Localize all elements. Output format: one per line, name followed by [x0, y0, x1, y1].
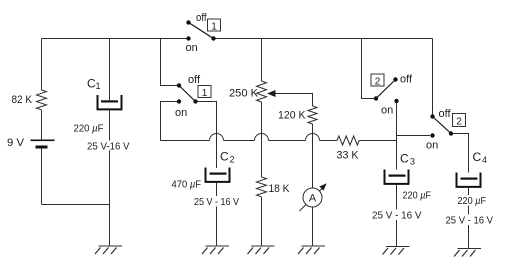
wire top bus right segment [214, 38, 433, 40]
wire 82K to battery [41, 110, 43, 140]
svg-text:C: C [400, 152, 409, 166]
wire C3 node to C3 [396, 141, 398, 170]
capacitor C2 bottom U bracket [205, 168, 231, 183]
wire pot top from bus [261, 39, 263, 82]
wire bottom left horizontal [42, 204, 110, 206]
capacitor C4 top plate [461, 178, 478, 180]
resistor 33K zigzag [337, 136, 359, 145]
capacitor C1 top plate [101, 100, 118, 102]
svg-text:off: off [196, 12, 207, 24]
switch S1a lever [189, 23, 214, 39]
svg-text:on: on [186, 42, 198, 54]
svg-text:9 V: 9 V [7, 137, 25, 149]
svg-text:220 µF: 220 µF [458, 196, 487, 207]
wire battery minus down [41, 148, 43, 205]
wire pot bottom to 18K [261, 102, 263, 177]
ground G4 under ammeter [298, 246, 325, 254]
svg-text:220 µF: 220 µF [74, 124, 104, 135]
svg-text:1: 1 [211, 22, 217, 33]
wire C1 bottom to ground [109, 111, 111, 247]
svg-text:C: C [220, 150, 229, 164]
capacitor C4 bottom U bracket [456, 173, 482, 188]
wire 120K bottom to ammeter [312, 124, 314, 188]
wire hump over C2 wire [210, 134, 224, 141]
wire C2 bottom to ground [216, 183, 218, 247]
switch S1a off contact dot [186, 20, 190, 24]
svg-text:1: 1 [96, 81, 101, 91]
svg-text:25 V - 16 V: 25 V - 16 V [194, 196, 239, 208]
wire mid bus segment 3 [269, 140, 306, 142]
switch S2b label box 2 [453, 114, 466, 127]
svg-text:1: 1 [202, 88, 208, 99]
capacitor C1 bottom U bracket [97, 95, 123, 110]
switch S1b off contact dot [177, 83, 181, 87]
switch S2b on contact dot [430, 133, 434, 137]
svg-text:3: 3 [410, 157, 415, 167]
ground G3 under 18K [248, 246, 275, 254]
switch S1a pole dot [211, 36, 215, 40]
ammeter M1 circle [303, 188, 322, 207]
svg-text:on: on [381, 105, 393, 117]
wire S2a on contact down to C3 node [396, 103, 398, 141]
wire 18K bottom to ground [261, 197, 263, 246]
switch S1b pole dot [193, 99, 197, 103]
switch S1b on contact dot [177, 99, 181, 103]
svg-text:82 K: 82 K [12, 94, 33, 106]
svg-text:2: 2 [375, 77, 381, 88]
switch S2a off contact dot [393, 77, 397, 81]
ground G1 under C1 [95, 246, 122, 254]
capacitor C3 bottom U bracket [384, 170, 410, 185]
switch S2b off contact dot [430, 114, 434, 118]
ammeter M1 arrowhead [319, 183, 326, 190]
wire C1 top [109, 39, 111, 101]
ground G2 under C2 [202, 246, 229, 254]
wire pot wiper to 120K [275, 94, 313, 107]
ground G6 under C4 [454, 249, 481, 257]
switch S1a on contact dot [186, 36, 190, 40]
label 25V-16V for C3 white backing [371, 210, 423, 221]
potentiometer 250K zigzag [257, 81, 267, 102]
battery B1 9V short plate [36, 146, 48, 149]
svg-text:25 V - 16 V: 25 V - 16 V [372, 210, 422, 222]
svg-text:2: 2 [456, 117, 462, 128]
resistor R 82K zigzag [37, 90, 47, 110]
label 25V-16V for C1 white backing [86, 141, 130, 151]
potentiometer wiper arrowhead [267, 90, 276, 97]
switch S2a pole dot [374, 96, 378, 100]
resistor 120K zigzag [308, 106, 317, 124]
svg-text:25 V - 16 V: 25 V - 16 V [446, 215, 494, 227]
wire S2a feed from bus [362, 39, 375, 99]
wire left rail from bus to 82K [41, 39, 43, 91]
wire mid bus segment 2 [224, 140, 255, 142]
svg-text:off: off [400, 74, 413, 86]
resistor 18K zigzag [257, 177, 267, 197]
wire S1b on contact to mid bus [161, 102, 178, 141]
wire 33K to C3 node [359, 140, 397, 142]
wire hump over 120K wire [306, 134, 320, 141]
wire hump over pot wire [255, 134, 269, 141]
capacitor C2 top plate [210, 173, 227, 175]
svg-text:220 µF: 220 µF [403, 191, 432, 202]
svg-text:on: on [175, 107, 187, 119]
wire S1b pole to C2 [196, 102, 217, 169]
wire mid bus segment 4 to 33K [320, 140, 338, 142]
wire top bus left segment [42, 38, 187, 40]
wire S1b feed from bus [161, 39, 178, 86]
svg-text:33 K: 33 K [337, 150, 360, 162]
svg-text:C: C [473, 150, 482, 164]
svg-text:25 V-16 V: 25 V-16 V [87, 141, 130, 153]
wire C3 node to S2b on contact [397, 135, 431, 137]
switch S2b pole dot [449, 131, 453, 135]
switch S2a on contact dot [394, 99, 398, 103]
switch S1b lever [179, 86, 196, 102]
svg-text:2: 2 [230, 155, 235, 165]
wire S2b pole to C4 [451, 134, 469, 173]
wire S2b feed from bus [432, 39, 434, 115]
battery B1 9V long plate [31, 140, 55, 142]
svg-text:A: A [309, 193, 317, 205]
potentiometer wiper arrow line [269, 93, 275, 95]
wire C3 bottom to ground [396, 184, 398, 247]
switch S1b label box 1 [198, 86, 211, 98]
svg-text:250 K: 250 K [229, 88, 259, 100]
label 25V-16V for C2 white backing [193, 196, 240, 207]
svg-text:off: off [439, 108, 452, 120]
switch S2a lever [376, 80, 396, 99]
wire ammeter to ground [312, 207, 314, 246]
ground G5 under C3 [383, 247, 410, 255]
switch S1a label box 1 [208, 19, 221, 31]
capacitor C3 top plate [389, 175, 406, 177]
switch S2a label box 2 [371, 74, 384, 86]
svg-text:on: on [426, 140, 438, 152]
wire mid bus segment 1 [161, 140, 210, 142]
switch S2b lever [433, 117, 452, 134]
svg-text:120 K: 120 K [278, 110, 306, 122]
wire C4 bottom to ground [468, 188, 470, 249]
svg-text:off: off [188, 74, 201, 86]
svg-text:18 K: 18 K [269, 183, 291, 195]
ammeter M1 arrow line [300, 189, 323, 212]
svg-text:4: 4 [482, 155, 487, 165]
svg-text:470 µF: 470 µF [172, 180, 202, 191]
label 220 uF for C4 white backing [457, 195, 488, 206]
label 25V-16V for C4 white backing [445, 215, 495, 226]
